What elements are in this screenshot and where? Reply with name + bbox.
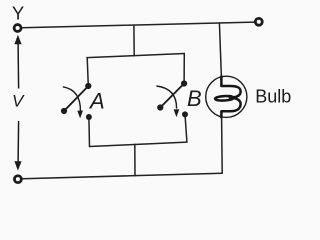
wire switch A lower lead — [88, 117, 91, 147]
terminal bottom left — [14, 176, 21, 183]
wire bulb top branch — [219, 23, 221, 77]
voltage arrow lower (points down toward bottom terminal) — [14, 121, 21, 171]
wire switch B lower lead — [185, 114, 187, 142]
switch B blade (open) — [160, 84, 184, 108]
wire bulb bottom branch — [221, 117, 224, 173]
filament loop — [215, 96, 234, 101]
lamp filament — [215, 76, 241, 117]
switch A motion arc arrow — [63, 87, 81, 111]
wire box left vertical — [87, 58, 88, 86]
switch A bottom contact dot — [86, 114, 92, 120]
svg-text:B: B — [187, 86, 202, 111]
switch A — [61, 83, 105, 120]
switch B bottom contact dot — [182, 111, 188, 117]
voltage arrow upper (points up toward Y terminal) — [14, 35, 21, 89]
svg-text:V: V — [12, 92, 25, 111]
switch B — [156, 80, 201, 117]
wire bottom rail — [22, 173, 222, 179]
wire box bottom connector — [134, 144, 136, 175]
switch B free-end dot — [157, 104, 163, 110]
lamp (bulb) outline circle — [206, 76, 247, 117]
switch B top contact dot — [181, 80, 187, 86]
svg-text:Y: Y — [12, 3, 24, 24]
wire box top connector — [133, 25, 135, 56]
switch B motion arc arrow — [156, 86, 176, 109]
terminal top right — [255, 18, 262, 25]
wire box bottom edge — [90, 142, 187, 146]
wire top rail — [22, 22, 254, 28]
wire box top edge — [87, 54, 184, 58]
switch A free-end dot — [61, 108, 67, 114]
switch A blade (open) — [64, 86, 88, 111]
switch A top contact dot — [85, 83, 91, 89]
svg-text:Bulb: Bulb — [255, 86, 291, 106]
terminal Y (top left) — [14, 25, 21, 32]
svg-text:A: A — [88, 89, 105, 114]
wire box right vertical — [183, 54, 185, 84]
